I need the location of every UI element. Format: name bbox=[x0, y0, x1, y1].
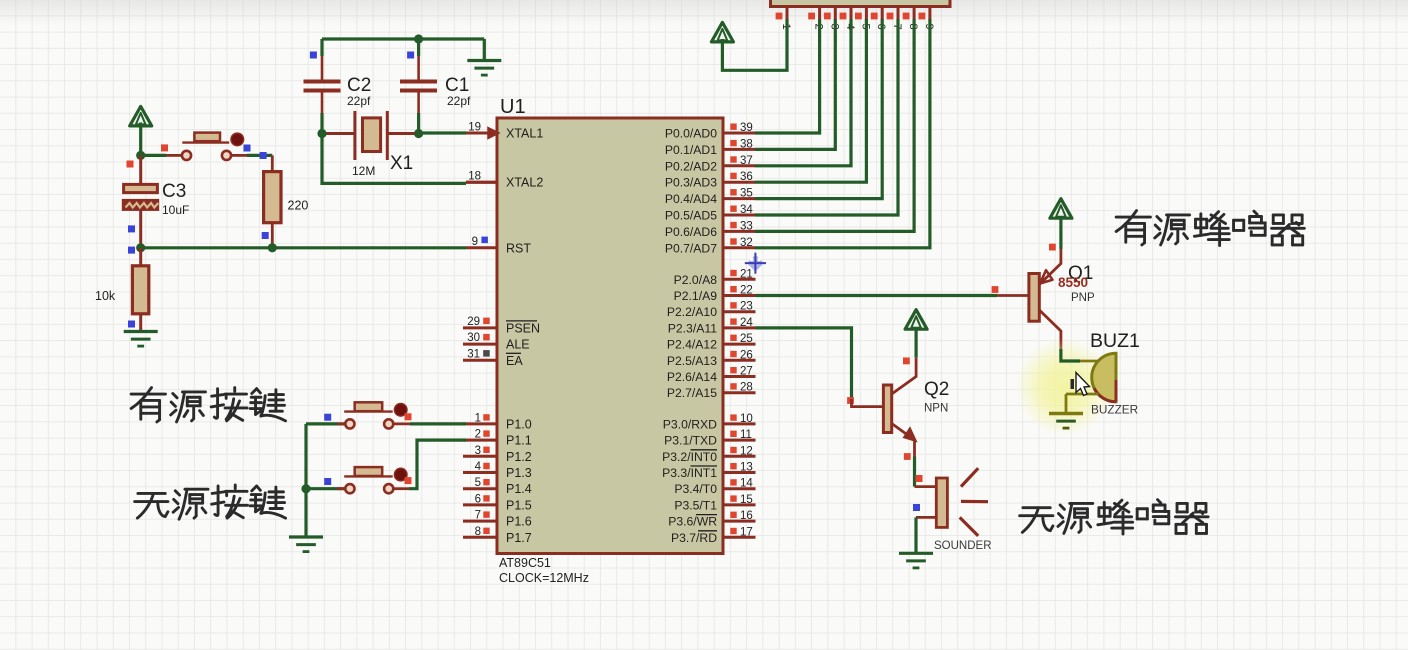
svg-text:P3.4/T0: P3.4/T0 bbox=[674, 482, 717, 496]
wire to key2 left bbox=[306, 487, 346, 490]
ground (crystal rail) bbox=[483, 39, 486, 60]
power arrow VCC (Q1) bbox=[1050, 199, 1072, 219]
pin 29 square bbox=[483, 318, 490, 325]
resistor 10k top pin bbox=[139, 248, 142, 266]
svg-text:23: 23 bbox=[740, 301, 753, 313]
power arrow VCC (reset) bbox=[130, 106, 152, 126]
EA overline bbox=[506, 352, 521, 354]
pin 7 red square bbox=[483, 511, 489, 517]
pin 30 square bbox=[483, 334, 490, 341]
pin 9 RST stub bbox=[466, 246, 497, 249]
pin 33 P0.6/AD6 stub bbox=[723, 230, 756, 233]
key K1 right lead bbox=[393, 422, 410, 425]
pin 17 P3.7/RD stub bbox=[723, 536, 756, 539]
key button K2 left terminal bbox=[345, 484, 354, 493]
button (reset) cap bbox=[231, 133, 244, 146]
pin 1 red square bbox=[483, 414, 489, 420]
svg-text:P1.0: P1.0 bbox=[506, 417, 532, 431]
svg-text:28: 28 bbox=[740, 382, 753, 394]
connector pin 4 red square bbox=[840, 13, 847, 20]
wire to key1 left bbox=[306, 422, 346, 425]
key K1 blue square bbox=[324, 414, 331, 421]
connector pin 9 stub bbox=[928, 7, 931, 21]
pin 6 red square bbox=[483, 495, 489, 501]
connector pin 8 stub bbox=[913, 7, 916, 21]
connector pin 3 stub bbox=[834, 7, 837, 21]
svg-text:19: 19 bbox=[468, 122, 481, 134]
pin 3 red square bbox=[483, 447, 489, 453]
ground (sounder) bbox=[899, 552, 933, 555]
svg-text:24: 24 bbox=[740, 317, 753, 329]
sounder LS1 bar bbox=[936, 478, 947, 527]
svg-text:P0.5/AD5: P0.5/AD5 bbox=[665, 209, 717, 223]
connector pin 6 stub bbox=[881, 7, 884, 21]
junction C3/RST bbox=[136, 243, 145, 252]
svg-text:16: 16 bbox=[740, 510, 753, 522]
svg-text:38: 38 bbox=[740, 138, 753, 150]
buzzer BUZ1 body bbox=[1092, 353, 1116, 402]
svg-text:C3: C3 bbox=[162, 181, 186, 202]
pin 36 red square bbox=[730, 173, 736, 179]
svg-text:P1.5: P1.5 bbox=[506, 498, 532, 512]
Q2 collector lead bbox=[892, 358, 916, 394]
svg-text:39: 39 bbox=[740, 122, 753, 134]
svg-text:35: 35 bbox=[740, 188, 753, 200]
connector pin 1 stub bbox=[786, 7, 789, 21]
svg-text:P0.1/AD1: P0.1/AD1 bbox=[665, 143, 717, 157]
pin 25 red square bbox=[730, 335, 736, 341]
connector pin 9 red square bbox=[919, 13, 926, 20]
svg-text:P1.2: P1.2 bbox=[506, 450, 532, 464]
svg-text:5: 5 bbox=[475, 477, 481, 489]
button (reset) actuator bar bbox=[194, 133, 220, 142]
wire key1 to P1.0 bbox=[410, 422, 466, 425]
pin 24 P2.3/A11 stub bbox=[723, 326, 756, 329]
resistor 10k body bbox=[132, 266, 148, 314]
pin 1 P1.0 stub bbox=[463, 422, 497, 425]
svg-text:30: 30 bbox=[467, 332, 480, 344]
capacitor C3 bottom plate bbox=[122, 199, 158, 210]
wire keys common vertical bbox=[304, 424, 307, 537]
pin 26 P2.5/A13 stub bbox=[723, 359, 756, 362]
key K2 blue square bbox=[324, 478, 331, 485]
junction X1 left bbox=[317, 129, 326, 138]
connector pin 4 stub bbox=[850, 7, 853, 21]
C3 blue square lower bbox=[128, 247, 135, 254]
key button K1 left terminal bbox=[345, 419, 354, 428]
pin 27 red square bbox=[730, 367, 736, 373]
pin 23 P2.2/A10 stub bbox=[723, 310, 756, 313]
svg-text:2: 2 bbox=[475, 429, 481, 441]
pin 38 P0.1/AD1 stub bbox=[723, 148, 756, 151]
Q1 emitter lead bbox=[1039, 249, 1061, 285]
svg-text:P1.7: P1.7 bbox=[506, 531, 532, 545]
pin 8 P1.7 stub bbox=[463, 536, 497, 539]
svg-text:P3.2/INT0: P3.2/INT0 bbox=[662, 450, 717, 464]
svg-text:P2.3/A11: P2.3/A11 bbox=[668, 321, 717, 335]
highlight glow around buzzer bbox=[1015, 338, 1113, 436]
svg-text:P2.4/A12: P2.4/A12 bbox=[667, 338, 717, 352]
capacitor C2 plates bbox=[304, 80, 341, 84]
connector J1 body (cropped at top) bbox=[771, 0, 951, 7]
pin 34 red square bbox=[730, 206, 736, 212]
sounder top lead bbox=[915, 485, 937, 488]
svg-text:AT89C51: AT89C51 bbox=[499, 556, 551, 570]
wire connector pin1 to VCC bbox=[722, 19, 787, 70]
XTAL1 clock arrow bbox=[488, 128, 499, 139]
svg-text:14: 14 bbox=[740, 478, 753, 490]
pin 23 red square bbox=[730, 302, 736, 308]
key button K1 left lead bbox=[337, 422, 345, 425]
connector pin 2 stub bbox=[818, 7, 821, 21]
capacitor C1 top pin bbox=[417, 56, 420, 80]
wire VCC to C3/button node bbox=[139, 123, 142, 158]
C2 blue square bbox=[310, 52, 317, 59]
svg-text:P3.0/RXD: P3.0/RXD bbox=[663, 417, 717, 431]
pin 22 P2.1/A9 stub bbox=[723, 294, 756, 297]
svg-text:RST: RST bbox=[506, 241, 531, 255]
svg-text:CLOCK=12MHz: CLOCK=12MHz bbox=[499, 571, 589, 585]
pin 5 red square bbox=[483, 479, 489, 485]
svg-text:220: 220 bbox=[288, 199, 309, 213]
key button K2 left lead bbox=[337, 487, 345, 490]
sounder bottom lead bbox=[916, 516, 936, 519]
pin 5 P1.4 stub bbox=[463, 487, 497, 490]
pin 4 P1.3 stub bbox=[463, 471, 497, 474]
key button K1 baseline bbox=[344, 410, 393, 412]
BUZ1 ground stem bbox=[1065, 394, 1068, 414]
svg-text:1: 1 bbox=[475, 412, 481, 424]
junction X1 right bbox=[414, 129, 423, 138]
svg-text:25: 25 bbox=[740, 333, 753, 345]
junction R220/RST bbox=[268, 243, 277, 252]
power arrow VCC (Q2) bbox=[905, 310, 927, 330]
svg-text:7: 7 bbox=[475, 510, 481, 522]
power arrow VCC (top left of bus) bbox=[711, 22, 733, 42]
wire sounder to ground bbox=[914, 517, 917, 553]
pin 16 red square bbox=[730, 512, 736, 518]
wire Q2 collector to VCC bbox=[914, 326, 917, 358]
svg-text:X1: X1 bbox=[390, 153, 413, 174]
connector pin 6 red square bbox=[871, 13, 878, 20]
capacitor C1 bottom pin bbox=[417, 93, 420, 114]
button (reset) baseline bbox=[182, 141, 229, 143]
button (reset) right terminal bbox=[222, 151, 231, 160]
pin 17 red square bbox=[730, 528, 736, 534]
pin 15 P3.5/T1 stub bbox=[723, 503, 756, 506]
wire Q1 emitter to VCC bbox=[1059, 214, 1062, 249]
pin 30 ALE stub bbox=[463, 343, 497, 346]
pin 10 red square bbox=[730, 414, 736, 420]
svg-text:P0.2/AD2: P0.2/AD2 bbox=[665, 159, 717, 173]
wire connector pin8 to P0.6 bbox=[755, 19, 914, 231]
svg-text:12: 12 bbox=[740, 445, 753, 457]
annotation 无源蜂鸣器 (passive buzzer) bbox=[1020, 500, 1208, 534]
PSEN overline bbox=[506, 320, 537, 322]
wire connector pin7 to P0.5 bbox=[755, 19, 898, 215]
wire connector pin5 to P0.3 bbox=[755, 19, 866, 182]
svg-text:NPN: NPN bbox=[924, 403, 948, 415]
pin 38 red square bbox=[730, 140, 736, 146]
pin 26 red square bbox=[730, 351, 736, 357]
Q2 collector red square bbox=[903, 358, 910, 365]
pin 32 red square bbox=[730, 238, 736, 244]
pin 37 red square bbox=[730, 156, 736, 162]
connector pin 5 stub bbox=[865, 7, 868, 21]
wire C2 branch to XTAL2 bbox=[322, 134, 466, 184]
pin 18 XTAL2 stub bbox=[466, 181, 497, 184]
key button K1 right terminal bbox=[384, 419, 393, 428]
crystal X1 left electrode bbox=[353, 111, 356, 160]
wire RST net bbox=[141, 246, 466, 249]
crystal X1 right pin bbox=[387, 132, 418, 135]
svg-text:17: 17 bbox=[740, 526, 753, 538]
wire connector pin2 to P0.0 bbox=[755, 19, 820, 133]
pin 3 P1.2 stub bbox=[463, 455, 497, 458]
wire P2.3 to Q2 base bbox=[756, 328, 852, 399]
svg-text:3: 3 bbox=[475, 445, 481, 457]
pin 13 P3.3/INT1 stub bbox=[723, 471, 756, 474]
sounder ray top bbox=[961, 468, 978, 486]
Q2 base lead bbox=[852, 399, 884, 407]
svg-text:8550: 8550 bbox=[1058, 275, 1088, 290]
R220 top pin bbox=[271, 155, 274, 172]
crystal X1 left pin bbox=[322, 132, 355, 135]
junction reset top node bbox=[136, 151, 145, 160]
svg-text:P1.3: P1.3 bbox=[506, 466, 532, 480]
key K2 right lead bbox=[393, 487, 409, 490]
Q2 emitter lead bbox=[892, 424, 915, 457]
transistor Q1 base bar bbox=[1029, 274, 1039, 322]
svg-text:10k: 10k bbox=[95, 289, 116, 303]
svg-text:Q2: Q2 bbox=[924, 379, 949, 400]
pin 7 P1.6 stub bbox=[463, 520, 497, 523]
sounder ray bottom bbox=[960, 517, 979, 536]
svg-text:P3.3/INT1: P3.3/INT1 bbox=[662, 466, 717, 480]
key button K1 actuator bar bbox=[355, 402, 383, 411]
pin 12 P3.2/INT0 stub bbox=[723, 455, 756, 458]
svg-text:37: 37 bbox=[740, 155, 753, 167]
Q2 emitter arrow (NPN) bbox=[904, 428, 917, 442]
wire X1 to XTAL1 bbox=[419, 131, 466, 134]
pin 33 red square bbox=[730, 222, 736, 228]
svg-text:12M: 12M bbox=[352, 164, 375, 178]
svg-text:11: 11 bbox=[740, 429, 752, 441]
RD overline bbox=[698, 530, 717, 532]
pin 16 P3.6/WR stub bbox=[723, 520, 756, 523]
svg-text:31: 31 bbox=[467, 348, 480, 360]
pin 9 blue square bbox=[481, 237, 488, 244]
Q1 base red square bbox=[992, 286, 999, 293]
key button K2 baseline bbox=[344, 475, 393, 477]
pin 39 red square bbox=[730, 124, 736, 130]
pin 28 red square bbox=[730, 383, 736, 389]
pin 31 EA stub bbox=[463, 359, 497, 362]
junction crystal top rail / C1 bbox=[414, 34, 423, 43]
Q1 emitter arrow (PNP) bbox=[1040, 270, 1053, 283]
Q2 base red square bbox=[847, 397, 854, 404]
svg-text:P2.2/A10: P2.2/A10 bbox=[667, 305, 717, 319]
svg-text:PNP: PNP bbox=[1071, 292, 1095, 304]
capacitor C3 bottom pin bbox=[139, 210, 142, 247]
capacitor C3 top plate bbox=[124, 184, 158, 192]
key button K2 cap bbox=[394, 468, 407, 481]
svg-text:EA: EA bbox=[506, 354, 523, 368]
key K2 red square bbox=[405, 477, 412, 484]
annotation 有源蜂鸣器 (active buzzer) bbox=[1116, 211, 1304, 246]
pin 36 P0.3/AD3 stub bbox=[723, 181, 756, 184]
svg-text:P3.1/TXD: P3.1/TXD bbox=[664, 434, 717, 448]
key button K1 cap bbox=[394, 404, 407, 417]
wire connector pin9 to P0.7 bbox=[755, 19, 930, 248]
svg-text:22pf: 22pf bbox=[447, 94, 471, 108]
svg-text:26: 26 bbox=[740, 349, 753, 361]
svg-text:34: 34 bbox=[740, 204, 753, 216]
Q1 collector lead bbox=[1039, 310, 1061, 349]
svg-text:10uF: 10uF bbox=[162, 203, 189, 217]
crystal X1 right electrode bbox=[386, 111, 389, 160]
INT0 overline bbox=[691, 449, 718, 451]
svg-text:22pf: 22pf bbox=[347, 94, 371, 108]
wire node to button SW1 bbox=[141, 154, 166, 157]
svg-text:P1.1: P1.1 bbox=[506, 434, 532, 448]
svg-text:P3.6/WR: P3.6/WR bbox=[668, 515, 717, 529]
move crosshair icon bbox=[745, 253, 766, 274]
pin 13 red square bbox=[730, 463, 736, 469]
pin 11 red square bbox=[730, 431, 736, 437]
connector pin 5 red square bbox=[855, 13, 862, 20]
svg-text:PSEN: PSEN bbox=[506, 321, 540, 335]
annotation 无源按键 (passive key) bbox=[135, 485, 286, 519]
connector pin 1 red square bbox=[776, 13, 783, 20]
svg-text:P0.4/AD4: P0.4/AD4 bbox=[665, 192, 717, 206]
svg-text:36: 36 bbox=[740, 171, 753, 183]
svg-text:P2.1/A9: P2.1/A9 bbox=[674, 289, 718, 303]
svg-text:P3.5/T1: P3.5/T1 bbox=[674, 498, 717, 512]
mouse cursor bbox=[1071, 373, 1090, 396]
pin 24 red square bbox=[730, 318, 736, 324]
svg-text:P0.3/AD3: P0.3/AD3 bbox=[665, 176, 717, 190]
C3 red square bbox=[127, 161, 134, 168]
C1 blue square bbox=[407, 52, 414, 59]
key K1 red square bbox=[405, 413, 412, 420]
svg-text:27: 27 bbox=[740, 366, 753, 378]
svg-text:P0.6/AD6: P0.6/AD6 bbox=[665, 225, 717, 239]
ground (10k) bbox=[124, 330, 158, 333]
svg-text:U1: U1 bbox=[500, 96, 526, 118]
Q2 emitter red square bbox=[904, 453, 911, 460]
R220 bottom pin bbox=[271, 223, 274, 248]
pin 28 P2.7/A15 stub bbox=[723, 391, 756, 394]
pin 2 red square bbox=[483, 430, 489, 436]
svg-text:6: 6 bbox=[475, 493, 481, 505]
pin 29 PSEN stub bbox=[463, 326, 497, 329]
pin 25 P2.4/A12 stub bbox=[723, 343, 756, 346]
pin 35 red square bbox=[730, 189, 736, 195]
svg-text:C2: C2 bbox=[347, 75, 371, 96]
connector pin 2 red square bbox=[808, 13, 815, 20]
svg-text:P1.6: P1.6 bbox=[506, 515, 532, 529]
connector pin 7 red square bbox=[887, 13, 894, 20]
transistor Q2 base bar bbox=[883, 385, 891, 433]
wire key2 to P1.1 bbox=[409, 440, 466, 489]
pin 8 red square bbox=[483, 528, 489, 534]
capacitor C3 top pin bbox=[139, 155, 142, 184]
svg-text:P2.7/A15: P2.7/A15 bbox=[667, 386, 717, 400]
svg-text:XTAL2: XTAL2 bbox=[506, 176, 543, 190]
C3 blue square upper bbox=[128, 225, 135, 232]
pin 11 P3.1/TXD stub bbox=[723, 439, 756, 442]
pin 31 square bbox=[483, 350, 490, 357]
Q1 emitter red square bbox=[1049, 244, 1056, 251]
button (reset) left terminal bbox=[182, 151, 191, 160]
svg-text:21: 21 bbox=[740, 268, 753, 280]
pin 2 P1.1 stub bbox=[463, 439, 497, 442]
svg-text:P1.4: P1.4 bbox=[506, 482, 532, 496]
wire crystal top rail bbox=[322, 37, 484, 40]
svg-text:P0.7/AD7: P0.7/AD7 bbox=[665, 241, 717, 255]
ground (BUZ1) bbox=[1049, 412, 1083, 415]
svg-text:BUZ1: BUZ1 bbox=[1090, 330, 1140, 352]
svg-text:22: 22 bbox=[740, 285, 753, 297]
svg-text:C1: C1 bbox=[445, 75, 469, 96]
svg-text:15: 15 bbox=[740, 494, 753, 506]
crystal X1 body bbox=[363, 118, 381, 152]
pin 6 P1.5 stub bbox=[463, 503, 497, 506]
wire connector pin4 to P0.2 bbox=[755, 19, 851, 166]
pin 19 XTAL1 stub bbox=[466, 132, 497, 135]
svg-text:P3.7/RD: P3.7/RD bbox=[671, 531, 717, 545]
svg-text:P2.0/A8: P2.0/A8 bbox=[674, 273, 718, 287]
blue square at R220 top bbox=[260, 152, 267, 159]
pin 14 red square bbox=[730, 479, 736, 485]
pin 10 P3.0/RXD stub bbox=[723, 422, 756, 425]
connector pin 7 stub bbox=[897, 7, 900, 21]
svg-text:P2.6/A14: P2.6/A14 bbox=[667, 370, 717, 384]
pin 35 P0.4/AD4 stub bbox=[723, 197, 756, 200]
button (reset) left lead bbox=[166, 154, 182, 157]
pin 12 red square bbox=[730, 447, 736, 453]
pin 27 P2.6/A14 stub bbox=[723, 375, 756, 378]
junction keys common bbox=[301, 484, 310, 493]
sounder blue square bbox=[913, 504, 920, 511]
key button K2 right terminal bbox=[384, 484, 393, 493]
pin 21 red square bbox=[730, 270, 736, 276]
connector pin 3 red square bbox=[824, 13, 831, 20]
microcontroller U1 AT89C51 body bbox=[497, 118, 723, 554]
wire connector pin3 to P0.1 bbox=[755, 19, 835, 149]
svg-text:ALE: ALE bbox=[506, 338, 530, 352]
svg-text:SOUNDER: SOUNDER bbox=[934, 540, 992, 552]
resistor R? 220 body bbox=[264, 172, 281, 223]
WR overline bbox=[696, 514, 717, 516]
key button K2 actuator bar bbox=[355, 467, 383, 476]
pin 37 P0.2/AD2 stub bbox=[723, 164, 756, 167]
button (reset) right lead bbox=[231, 154, 247, 157]
blue square at 10k bottom bbox=[128, 321, 135, 328]
pin 22 red square bbox=[730, 286, 736, 292]
pin 21 P2.0/A8 stub bbox=[723, 278, 756, 281]
svg-text:P2.5/A13: P2.5/A13 bbox=[667, 354, 717, 368]
svg-text:8: 8 bbox=[475, 526, 481, 538]
button (reset) blue square bbox=[244, 145, 251, 152]
BUZ1 bottom terminal bbox=[1066, 393, 1099, 396]
svg-text:32: 32 bbox=[740, 237, 753, 249]
INT1 overline bbox=[691, 465, 718, 467]
connector pin 8 red square bbox=[903, 13, 910, 20]
wire connector pin6 to P0.4 bbox=[755, 19, 882, 199]
svg-text:BUZZER: BUZZER bbox=[1091, 403, 1138, 417]
